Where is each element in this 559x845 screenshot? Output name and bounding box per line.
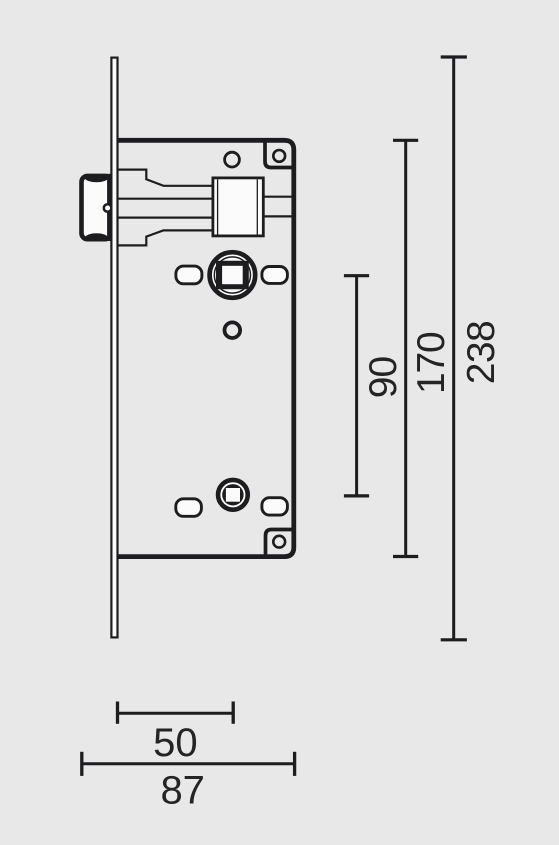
svg-text:87: 87 xyxy=(160,769,205,813)
svg-text:170: 170 xyxy=(410,332,453,394)
svg-text:90: 90 xyxy=(362,357,405,399)
svg-text:50: 50 xyxy=(153,721,198,765)
svg-text:238: 238 xyxy=(460,321,503,384)
